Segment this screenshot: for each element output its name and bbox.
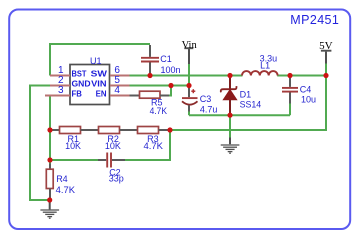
diode D1 SS14: [221, 76, 261, 116]
resistor R5: [130, 91, 170, 116]
resistor R2: [99, 127, 138, 152]
wire 5V feedback return: [170, 76, 326, 131]
junction FB/R1: [47, 127, 52, 132]
svg-text:R4: R4: [56, 174, 68, 184]
svg-text:33p: 33p: [109, 173, 124, 183]
svg-text:4.7K: 4.7K: [56, 185, 75, 195]
wire C3 bottom drop: [188, 111, 190, 115]
svg-text:10u: 10u: [301, 94, 316, 104]
capacitor C4: [282, 77, 316, 105]
capacitor C2: [98, 153, 125, 184]
svg-text:4.7u: 4.7u: [200, 104, 218, 114]
svg-text:L1: L1: [260, 61, 270, 71]
port 5V: [319, 41, 333, 64]
junction R3/5V: [167, 127, 172, 132]
wire D1 ground stub green: [229, 115, 231, 137]
resistor R1: [50, 127, 99, 152]
wire C2 right riser: [125, 130, 170, 160]
svg-text:U1: U1: [90, 56, 102, 66]
port Vin: [182, 40, 198, 64]
pin 6 SW stub: [110, 75, 130, 77]
svg-text:SW: SW: [91, 69, 108, 79]
pin 3 FB stub: [45, 95, 70, 97]
capacitor C3 polarized: [182, 88, 217, 115]
wire Vin port drop: [188, 64, 190, 86]
svg-text:BST: BST: [72, 69, 88, 79]
junction D1/ground rail: [227, 113, 232, 118]
svg-text:D1: D1: [240, 90, 252, 100]
wire FB to C2 left: [50, 159, 98, 161]
junction 5V port: [323, 73, 328, 78]
svg-text:GND: GND: [72, 79, 91, 89]
wire 5V port drop: [325, 64, 327, 76]
junction D1/SW: [227, 73, 232, 78]
junction C1/SW: [147, 73, 152, 78]
ground symbol under D1: [221, 138, 240, 154]
junction R4/ground: [47, 197, 52, 202]
svg-text:10K: 10K: [105, 141, 121, 151]
svg-text:FB: FB: [72, 89, 82, 99]
svg-text:10K: 10K: [65, 141, 81, 151]
junction R5/VIN: [168, 83, 173, 88]
pin 5 VIN stub: [110, 85, 130, 87]
resistor R3: [138, 127, 171, 152]
pin 1 BST stub: [50, 75, 70, 77]
svg-text:SS14: SS14: [240, 99, 262, 109]
wire SW net right segment: [277, 75, 326, 77]
wire R5 right to VIN net: [169, 86, 171, 96]
svg-text:4.7K: 4.7K: [150, 106, 167, 116]
svg-text:C4: C4: [300, 84, 312, 94]
junction FB/C2/R4: [47, 157, 52, 162]
capacitor C1: [141, 45, 181, 76]
svg-text:VIN: VIN: [91, 79, 106, 89]
svg-text:100n: 100n: [161, 65, 181, 75]
wire VIN net: [130, 85, 190, 87]
inductor L1: [242, 54, 278, 76]
svg-text:3: 3: [58, 85, 64, 96]
wire C4 bottom drop: [289, 104, 291, 116]
junction Vin/C3: [186, 83, 191, 88]
svg-text:4: 4: [114, 85, 120, 96]
svg-text:MP2451: MP2451: [290, 13, 339, 27]
wire BST top net: [50, 44, 150, 76]
ground symbol under R4: [40, 201, 59, 218]
svg-text:4.7K: 4.7K: [144, 141, 164, 151]
svg-text:Vin: Vin: [182, 40, 198, 51]
junction C4/SW: [287, 73, 292, 78]
svg-text:C1: C1: [160, 54, 172, 64]
wire GND pin to ground: [30, 86, 50, 201]
pin 2 GND stub: [50, 85, 70, 87]
svg-text:5V: 5V: [319, 41, 333, 52]
wire FB vertical: [49, 96, 51, 164]
resistor R4: [46, 164, 75, 201]
svg-text:C3: C3: [200, 94, 212, 104]
op IC U1 box: [70, 56, 110, 105]
wire SW net left segment: [130, 75, 243, 77]
wire ground rail: [189, 114, 290, 116]
svg-text:EN: EN: [96, 89, 107, 99]
pin 4 EN stub: [110, 95, 130, 97]
